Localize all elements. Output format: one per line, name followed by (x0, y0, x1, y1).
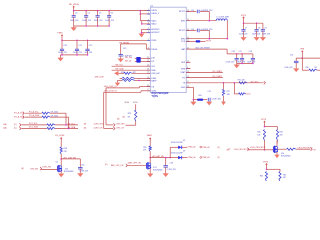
wire SW1 (186, 20, 216, 22)
pin numbers U1 right (187, 10, 189, 88)
svg-text:C15: C15 (123, 48, 126, 50)
offpage chevron 4 (19, 127, 21, 130)
power arrow ILIM (114, 71, 118, 76)
svg-text:1UF_25V: 1UF_25V (85, 52, 93, 54)
svg-text:ILIM_HIZ: ILIM_HIZ (151, 73, 160, 75)
svg-text:C28: C28 (170, 163, 173, 165)
resistor R33 (287, 148, 296, 150)
resistor R19 (47, 127, 55, 129)
resistor R25 (122, 79, 135, 81)
wire R23 top (135, 104, 137, 110)
svg-text:(B): (B) (84, 124, 87, 126)
svg-text:PG_A_SDA: PG_A_SDA (29, 114, 40, 117)
svg-text:BQ_NTC: BQ_NTC (251, 81, 259, 83)
wire I2C row4 (22, 128, 79, 130)
svg-text:RE_Dp: RE_Dp (125, 60, 132, 62)
offpage chevron 2 (23, 116, 25, 119)
svg-text:10UF_25V: 10UF_25V (70, 20, 79, 22)
wire R27 drop (223, 83, 225, 90)
capacitor C18 (251, 54, 255, 64)
resistor R35 (279, 172, 281, 182)
svg-text:0.1UF_25V: 0.1UF_25V (226, 61, 235, 63)
ground C15 (118, 57, 124, 62)
ground BAT bank (234, 63, 240, 68)
junction ACDRV (141, 32, 143, 34)
op-amp U1 body BQ25792 (150, 7, 186, 92)
svg-text:R28: R28 (64, 148, 67, 150)
svg-text:xRE_ILIM: xRE_ILIM (95, 77, 104, 79)
wire diode riser (170, 147, 178, 157)
svg-text:TH1_10K: TH1_10K (238, 80, 246, 82)
ground Q2 (58, 173, 64, 177)
svg-text:C5: C5 (99, 13, 101, 15)
transistor Q3 (147, 158, 151, 174)
wire PMID caps bottom rail (61, 54, 88, 56)
svg-text:R32: R32 (280, 132, 283, 134)
offpage chevron BAT_OFF_ON (126, 164, 128, 167)
svg-text:10UF_25V: 10UF_25V (58, 52, 67, 54)
ground ACDRV (139, 34, 145, 38)
wire I2C row2 (25, 117, 69, 128)
ground C32 (293, 68, 299, 72)
svg-text:xTPA2_A#: xTPA2_A# (187, 156, 195, 159)
svg-text:VBAT: VBAT (147, 134, 153, 137)
junction Q2 drain (60, 158, 62, 160)
power symbol PMID (61, 34, 63, 40)
svg-text:CHG_EN: CHG_EN (30, 168, 39, 170)
ground R27 (221, 102, 225, 106)
junction VBUS pin2 (140, 13, 142, 15)
resistor R30 (239, 93, 246, 95)
wire BAT bus (150, 157, 170, 159)
wire BAT bottom rail (237, 62, 253, 64)
svg-text:REGN: REGN (151, 49, 157, 51)
svg-text:0.1UF_25V: 0.1UF_25V (239, 33, 248, 35)
svg-text:D3: D3 (183, 151, 185, 153)
svg-text:xCHG_PROCHOT#: xCHG_PROCHOT# (250, 147, 266, 149)
resistor R23 (135, 110, 137, 121)
svg-text:R34: R34 (260, 176, 263, 178)
offpage chevron CHG_EN (40, 167, 42, 170)
svg-text:C7: C7 (245, 27, 247, 29)
junction C28 (165, 157, 167, 159)
ground VBUS caps (71, 26, 77, 31)
svg-text:SD05C14C4SP: SD05C14C4SP (171, 153, 184, 155)
capacitor C6 (107, 11, 111, 26)
ground C30 (77, 173, 83, 177)
offpage chevron prochot (311, 148, 313, 151)
wire prochot stub (249, 149, 265, 151)
junction gate row (264, 149, 266, 151)
resistor R27 (222, 89, 224, 96)
svg-text:xCHG_EN: xCHG_EN (42, 166, 51, 168)
junction VPA (302, 57, 304, 59)
wire R28 top (60, 143, 62, 147)
svg-text:4C04: 4C04 (125, 102, 130, 104)
resistor R32 (276, 130, 278, 141)
wire PMID rail (62, 39, 150, 41)
pin names U1 left column (151, 10, 160, 92)
svg-text:VSYS: VSYS (261, 119, 267, 121)
capacitor C28 (163, 158, 168, 173)
svg-text:R29: R29 (143, 147, 146, 149)
svg-text:R35: R35 (283, 174, 286, 176)
ground Q4 (275, 155, 280, 158)
ground C9 (260, 37, 266, 41)
svg-text:R36: R36 (306, 67, 309, 69)
wire DM (135, 57, 151, 59)
wire GND pin route (186, 87, 197, 99)
svg-text:xTPA1_A#: xTPA1_A# (187, 146, 195, 149)
svg-text:BATP: BATP (151, 79, 157, 82)
capacitor C17 (240, 54, 244, 64)
wire STAT1 (186, 71, 223, 73)
svg-text:C16: C16 (232, 51, 235, 53)
wire Q4 gate (265, 149, 274, 151)
wire BTST1 (186, 11, 209, 20)
junction SW2 a (209, 38, 211, 40)
junction SW1 (209, 20, 211, 22)
svg-text:VAC1: VAC1 (151, 20, 157, 23)
junction dots VSYS rail (243, 22, 258, 24)
svg-text:SRP: SRP (181, 62, 186, 64)
capacitor C32 (294, 58, 299, 68)
junction diode bus (169, 157, 171, 159)
junction q4 top (264, 126, 266, 128)
wire R27 gnd (223, 96, 225, 101)
wire Q2 gate (41, 168, 57, 170)
svg-text:C13: C13 (191, 10, 194, 12)
wire VPA rail (296, 58, 320, 70)
wire Q3 gate (127, 164, 146, 166)
svg-text:PG_A_SCL: PG_A_SCL (14, 112, 24, 115)
svg-text:VSYS: VSYS (241, 15, 247, 17)
wire R24 to pin (120, 77, 151, 79)
svg-text:I2C1_SCL: I2C1_SCL (29, 123, 38, 125)
svg-text:xCHG_INT#: xCHG_INT# (94, 124, 105, 126)
power symbol VSYS q5 (265, 163, 267, 169)
ground C19 (208, 100, 210, 102)
svg-text:4R7: 4R7 (133, 72, 136, 74)
svg-text:VBUS_2: VBUS_2 (151, 13, 160, 15)
svg-text:VSYS: VSYS (206, 40, 212, 42)
svg-text:TPA2_A#: TPA2_A# (202, 156, 210, 159)
svg-text:0.047UF_25V: 0.047UF_25V (201, 10, 213, 12)
pin stub SRN (186, 68, 190, 70)
svg-text:C10: C10 (63, 45, 66, 47)
wire I2C row3 (22, 124, 79, 126)
resistor R31 (263, 130, 265, 141)
svg-text:GND: GND (181, 87, 186, 89)
thermistor TH1 (239, 82, 247, 84)
svg-text:SYS: SYS (181, 41, 186, 43)
junction q5 (266, 169, 268, 171)
svg-text:R26: R26 (121, 72, 124, 74)
svg-text:0R_0402: 0R_0402 (51, 116, 58, 118)
wire R32 to Q4 drain (276, 141, 279, 144)
capacitor C9 (261, 23, 265, 36)
svg-text:C4: C4 (87, 13, 89, 15)
wire VSYS rail (244, 22, 263, 24)
junction dots PMID bottom (61, 54, 88, 56)
svg-text:Q2: Q2 (56, 162, 58, 164)
svg-text:VBUS: VBUS (151, 10, 157, 12)
power symbol VPA (301, 50, 303, 58)
svg-text:C9: C9 (264, 27, 266, 29)
svg-text:RE_Dm: RE_Dm (125, 57, 132, 59)
wire STAT2 (186, 77, 223, 79)
diode D3 (178, 156, 182, 159)
diode D2 (178, 146, 182, 149)
wire D3 out (182, 157, 187, 159)
wire CE route (106, 87, 150, 125)
svg-text:D2: D2 (183, 140, 185, 142)
resistor R24 (122, 77, 135, 79)
power symbol PG_1V8 (60, 137, 62, 143)
capacitor C16 (235, 54, 239, 64)
svg-text:10UF_25V: 10UF_25V (105, 20, 114, 22)
wire R31 to gate row (264, 141, 266, 150)
ground C28 (163, 173, 169, 177)
wire VBUS pin pair jog (140, 11, 150, 14)
resistor R20 (42, 112, 50, 114)
svg-text:C30: C30 (81, 165, 84, 167)
svg-text:C19: C19 (208, 91, 211, 93)
wire R25 to pin (118, 79, 151, 81)
svg-text:QON: QON (151, 91, 156, 93)
svg-text:RUC002N05: RUC002N05 (281, 155, 291, 157)
svg-text:R27: R27 (227, 91, 230, 93)
svg-text:R23: R23 (128, 113, 131, 115)
svg-text:SD05C14C4SP: SD05C14C4SP (171, 142, 184, 144)
svg-text:(1A): (1A) (3, 123, 7, 126)
wire Q4 out (277, 148, 310, 150)
svg-text:BTST1: BTST1 (179, 11, 186, 13)
resistor R34 (265, 172, 267, 182)
capacitor C10 (60, 40, 64, 55)
wire REGN elbow (121, 44, 151, 49)
ferrite bead FB1 (197, 99, 203, 101)
junction row4 (68, 128, 70, 130)
svg-text:(B): (B) (123, 116, 126, 118)
power symbol RE_VBUS (73, 6, 75, 11)
svg-text:L1 1.0UH_SMD: L1 1.0UH_SMD (217, 17, 230, 19)
offpage circle TPA1 (200, 146, 202, 148)
svg-text:C3: C3 (75, 13, 77, 15)
ground C7 (241, 37, 247, 41)
svg-text:VAC2: VAC2 (151, 23, 157, 26)
capacitor C3 (72, 11, 76, 26)
pin numbers U1 left (147, 9, 149, 91)
svg-text:C6: C6 (110, 13, 112, 15)
transistor Q2 (58, 159, 63, 174)
ground C8 (254, 37, 260, 41)
svg-text:C11: C11 (78, 45, 81, 47)
svg-text:CHG_OK: CHG_OK (116, 127, 125, 129)
wire R30 drop (234, 83, 246, 94)
wire FB1 to C19 (203, 99, 207, 101)
svg-text:ACDRV2: ACDRV2 (151, 31, 160, 34)
wire BAT (186, 49, 227, 54)
power symbol VSYS q4 (263, 121, 265, 127)
transistor Q4 (273, 141, 278, 155)
svg-text:BAT_OFF_ON: BAT_OFF_ON (111, 164, 124, 167)
wire diode row2 (170, 157, 178, 159)
svg-text:(B): (B) (84, 127, 87, 129)
svg-text:(F): (F) (218, 157, 221, 159)
svg-text:RE_SDA: RE_SDA (68, 126, 76, 129)
svg-text:C12: C12 (89, 45, 92, 47)
junction Q3 drain (149, 157, 151, 159)
wire BTST2 (186, 30, 209, 38)
wire TS row (186, 82, 263, 84)
wire I2C row1 (25, 113, 66, 125)
offpage chevron 3 (19, 123, 21, 126)
capacitor C4 (84, 11, 88, 26)
offpage chevron prochot in (247, 148, 249, 151)
resistor R18 (47, 124, 55, 126)
resistor R36 (309, 69, 317, 71)
junction TS b (234, 82, 236, 84)
offpage chevron BQ_NTC (264, 81, 266, 84)
capacitor C7 (241, 23, 245, 36)
svg-text:C17: C17 (239, 51, 242, 53)
offpage chevron CHG_INT (113, 123, 115, 126)
svg-text:SRN: SRN (181, 68, 186, 70)
offpage circle TPA2 (200, 157, 202, 159)
junction SW2 b (227, 38, 229, 40)
svg-text:0R_0402: 0R_0402 (51, 112, 58, 114)
svg-text:BQ25792RQMR: BQ25792RQMR (152, 93, 169, 95)
wire VAC feed vertical (140, 14, 150, 24)
capacitor C30 (78, 159, 83, 173)
junction GND (193, 99, 195, 101)
junction dots VBUS rail (73, 10, 141, 12)
svg-text:4C6: 4C6 (247, 94, 250, 96)
wire VBUS caps bottom rail (74, 25, 109, 27)
svg-text:R31: R31 (257, 132, 260, 134)
svg-text:10UF_25V: 10UF_25V (73, 52, 82, 54)
svg-text:4K7: 4K7 (283, 177, 286, 179)
ferrite bead FB2 (196, 40, 201, 42)
power symbol VBAT (149, 137, 151, 146)
svg-text:10UF_25V: 10UF_25V (262, 33, 271, 35)
capacitor C13 (197, 10, 199, 14)
ground GND pin (191, 100, 197, 106)
svg-text:CHG_PROCHOT#: CHG_PROCHOT# (234, 149, 249, 151)
svg-text:4C05: 4C05 (133, 102, 138, 104)
wire ILIM row (118, 72, 150, 74)
pin stubs U1 right (186, 11, 189, 87)
svg-text:VSYS: VSYS (263, 161, 269, 163)
capacitor C5 (96, 11, 100, 26)
junction dots PMID rail (61, 40, 88, 42)
svg-text:BTST2: BTST2 (179, 30, 186, 32)
svg-text:0.1UF_16V: 0.1UF_16V (212, 98, 222, 100)
svg-text:RE_SCL: RE_SCL (68, 123, 75, 125)
svg-text:PG: PG (182, 77, 185, 79)
svg-text:STAT: STAT (180, 71, 186, 74)
svg-text:RUC002N05: RUC002N05 (153, 170, 163, 172)
svg-text:SDA: SDA (151, 69, 156, 72)
power arrow row2 (115, 80, 120, 86)
junction R25 (138, 80, 140, 82)
component U3 usb filter (136, 57, 140, 63)
svg-text:xBAT_OFF_ON: xBAT_OFF_ON (128, 161, 142, 164)
capacitor C15 (119, 44, 123, 57)
svg-text:(B): (B) (117, 118, 120, 120)
junction TS a (223, 82, 225, 84)
wire VBUS rail (74, 10, 151, 12)
svg-text:FB1: FB1 (198, 95, 201, 97)
svg-text:TPA1_A#: TPA1_A# (202, 146, 210, 149)
ground PMID caps (58, 55, 64, 61)
svg-text:I2C1_SDA: I2C1_SDA (29, 126, 39, 129)
svg-text:TQFN: TQFN (152, 96, 159, 98)
pin stubs U1 left (147, 11, 150, 91)
wire SYS out (200, 40, 205, 42)
wire q5 branch (267, 169, 281, 171)
svg-text:(D): (D) (105, 164, 108, 166)
junction VAC pin2 (141, 23, 143, 25)
ground Q3 (147, 173, 153, 177)
svg-text:PMID: PMID (58, 32, 64, 34)
offpage chevron CHG_OK (113, 127, 115, 130)
pin stub SRP (186, 61, 190, 63)
pin names U1 right column (179, 11, 186, 89)
wire SCL (112, 65, 151, 67)
wire R29 to bus (149, 151, 151, 158)
svg-text:10UF_25V: 10UF_25V (252, 33, 261, 35)
capacitor C8 (255, 23, 259, 36)
wire QON route (104, 91, 151, 129)
offpage chevron 1 (23, 112, 25, 115)
svg-text:xCHG_OK: xCHG_OK (94, 127, 104, 129)
wire SYS pin (186, 40, 195, 42)
resistor R26 (124, 72, 132, 74)
svg-text:C14: C14 (191, 29, 194, 31)
wire R28 to Q2 (60, 154, 62, 160)
svg-text:RUC002N05: RUC002N05 (64, 171, 74, 173)
svg-text:DM: DM (151, 58, 154, 60)
capacitor C12 (85, 40, 89, 55)
wire D2 out (182, 146, 187, 148)
svg-text:C18: C18 (249, 51, 252, 53)
resistor R29 (149, 146, 151, 151)
svg-text:C8: C8 (258, 27, 260, 29)
wire R23 bottom elbow (126, 121, 136, 125)
svg-text:RE_VBUS: RE_VBUS (69, 4, 79, 6)
junction dots BAT bottom (241, 63, 253, 65)
inductor L1 (216, 19, 227, 21)
junction dots BAT rail (236, 53, 243, 55)
resistor R21 (42, 116, 50, 118)
svg-text:10UF_6V3: 10UF_6V3 (284, 67, 292, 69)
svg-text:ACDRV1: ACDRV1 (151, 28, 160, 31)
svg-text:CHG_INT#: CHG_INT# (116, 124, 126, 126)
svg-text:C32: C32 (290, 54, 293, 56)
svg-text:PMID: PMID (151, 40, 157, 42)
junction row3 (65, 124, 67, 126)
wire BAT rail (227, 53, 253, 55)
power symbol VSYS (242, 16, 244, 23)
svg-text:(F): (F) (218, 147, 221, 149)
junction dots bottom rail (85, 25, 110, 27)
wire SW2 (186, 21, 227, 39)
svg-text:CHG_PROCHOT#: CHG_PROCHOT# (298, 148, 313, 150)
svg-text:0.047UF_25V: 0.047UF_25V (201, 29, 213, 31)
svg-text:PG_1EV8: PG_1EV8 (55, 135, 65, 137)
